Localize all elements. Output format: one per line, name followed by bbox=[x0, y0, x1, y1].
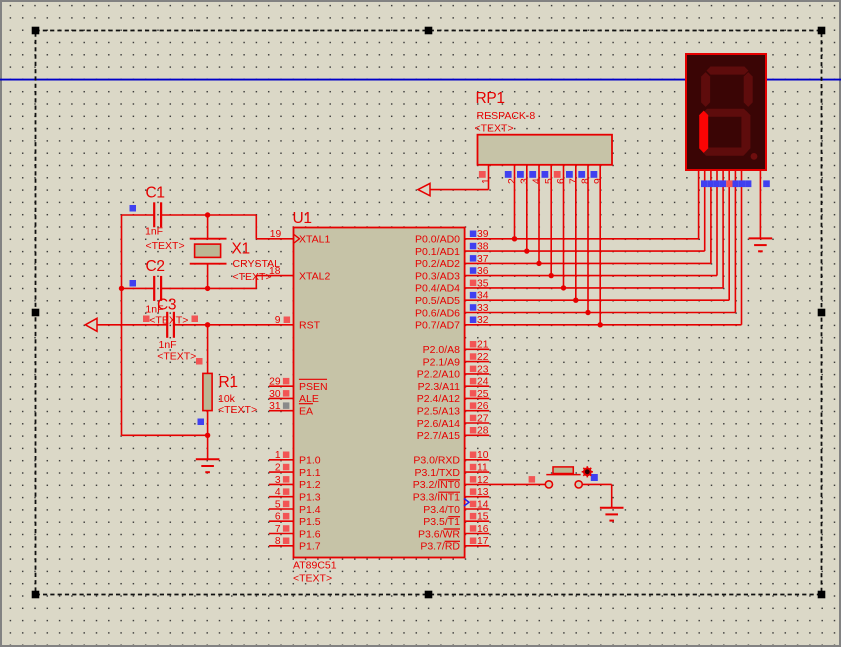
RD overline bbox=[445, 540, 460, 542]
pin 38 square bbox=[470, 243, 477, 250]
svg-text:5: 5 bbox=[275, 499, 281, 510]
pin 2 square bbox=[283, 464, 290, 471]
pin 21 stub (right) bbox=[465, 348, 490, 350]
wire P0.7 net bbox=[465, 165, 742, 325]
pin 15 square bbox=[470, 513, 477, 520]
svg-text:33: 33 bbox=[477, 303, 489, 314]
svg-text:P1.0: P1.0 bbox=[299, 455, 321, 467]
pin 25 stub (right) bbox=[465, 397, 490, 399]
svg-text:24: 24 bbox=[477, 377, 489, 388]
svg-text:1nF: 1nF bbox=[159, 339, 177, 351]
svg-text:<TEXT>: <TEXT> bbox=[157, 351, 196, 363]
pin 5 square bbox=[283, 501, 290, 508]
C1 pin-state square bbox=[130, 205, 137, 212]
RP1 pin 2 square bbox=[505, 171, 512, 178]
pin 3 stub (left) bbox=[269, 483, 294, 485]
svg-text:3: 3 bbox=[275, 475, 281, 486]
svg-text:16: 16 bbox=[477, 524, 489, 535]
svg-text:5: 5 bbox=[544, 178, 555, 184]
junction P0.4 / RP1 bbox=[561, 285, 566, 290]
svg-text:P0.6/AD6: P0.6/AD6 bbox=[415, 307, 460, 319]
pin 13 square bbox=[470, 488, 477, 495]
pin 31 square bbox=[283, 402, 290, 409]
RP1 pin 4 square bbox=[529, 171, 536, 178]
svg-text:P0.5/AD5: P0.5/AD5 bbox=[415, 295, 460, 307]
node C junction (RST/R1) bbox=[205, 322, 210, 327]
selection handle bbox=[818, 591, 826, 599]
svg-text:P1.2: P1.2 bbox=[299, 479, 321, 491]
svg-text:P0.0/AD0: P0.0/AD0 bbox=[415, 234, 460, 246]
pin 12 square bbox=[470, 476, 477, 483]
svg-text:P0.1/AD1: P0.1/AD1 bbox=[415, 246, 460, 258]
svg-text:XTAL1: XTAL1 bbox=[299, 234, 330, 246]
svg-text:9: 9 bbox=[593, 178, 604, 184]
svg-text:<TEXT>: <TEXT> bbox=[475, 123, 514, 135]
svg-text:P2.1/A9: P2.1/A9 bbox=[423, 356, 461, 368]
svg-text:X1: X1 bbox=[232, 241, 250, 258]
wire button to ground bbox=[582, 484, 612, 507]
PSEN overline bbox=[299, 378, 327, 380]
svg-text:P3.6/WR: P3.6/WR bbox=[418, 528, 460, 540]
pin 7 square bbox=[283, 525, 290, 532]
pin 5 stub (left) bbox=[269, 508, 294, 510]
svg-text:6: 6 bbox=[275, 512, 281, 523]
svg-text:23: 23 bbox=[477, 364, 489, 375]
pin 23 stub (right) bbox=[465, 373, 490, 375]
svg-text:25: 25 bbox=[477, 389, 489, 400]
pin 1 stub (left) bbox=[269, 459, 294, 461]
pin 8 stub (left) bbox=[269, 545, 294, 547]
pin 3 square bbox=[283, 476, 290, 483]
svg-text:<TEXT>: <TEXT> bbox=[146, 240, 185, 252]
svg-text:7: 7 bbox=[275, 524, 281, 535]
pin 13 stub (right) bbox=[465, 496, 490, 498]
svg-text:P3.0/RXD: P3.0/RXD bbox=[413, 455, 460, 467]
svg-text:C3: C3 bbox=[157, 297, 176, 314]
svg-text:4: 4 bbox=[532, 178, 543, 184]
pin 30 square bbox=[283, 390, 290, 397]
svg-text:P0.7/AD7: P0.7/AD7 bbox=[415, 320, 460, 332]
EA overline bbox=[299, 403, 313, 405]
pin 31 stub (left) bbox=[269, 410, 294, 412]
node A junction bbox=[205, 212, 210, 217]
wire P0.6 net bbox=[465, 165, 736, 313]
svg-text:8: 8 bbox=[275, 536, 281, 547]
R1 pin-state squares bbox=[196, 358, 203, 365]
pin 30 stub (left) bbox=[269, 397, 294, 399]
pin 8 square bbox=[283, 538, 290, 545]
crystal X1 bbox=[190, 215, 227, 288]
svg-text:P1.5: P1.5 bbox=[299, 516, 321, 528]
C3 pin-state squares bbox=[143, 316, 150, 323]
pin 35 square bbox=[470, 280, 477, 287]
pin 10 stub (right) bbox=[465, 459, 490, 461]
pin 25 square bbox=[470, 390, 477, 397]
pin 22 stub (right) bbox=[465, 361, 490, 363]
RP1 pin 6 square bbox=[554, 171, 561, 178]
P3.4 blue chevron bbox=[464, 499, 469, 507]
svg-text:6: 6 bbox=[556, 178, 567, 184]
capacitor C1 bbox=[122, 202, 208, 227]
svg-text:1: 1 bbox=[481, 178, 492, 184]
junction P0.1 / RP1 bbox=[524, 248, 529, 253]
svg-text:R1: R1 bbox=[219, 374, 238, 391]
wire P0.2 net bbox=[465, 165, 711, 264]
svg-text:P2.0/A8: P2.0/A8 bbox=[423, 344, 461, 356]
svg-text:8: 8 bbox=[581, 178, 592, 184]
svg-text:U1: U1 bbox=[293, 210, 312, 227]
WR overline bbox=[444, 528, 460, 530]
T1 overline bbox=[448, 516, 460, 518]
junction P0.2 / RP1 bbox=[536, 261, 541, 266]
pin 23 square bbox=[470, 366, 477, 373]
wire node A to XTAL1 bbox=[208, 215, 294, 239]
pin 36 square bbox=[470, 267, 477, 274]
svg-text:P2.6/A14: P2.6/A14 bbox=[417, 418, 460, 430]
svg-text:28: 28 bbox=[477, 426, 489, 437]
svg-text:<TEXT>: <TEXT> bbox=[218, 404, 257, 416]
svg-text:30: 30 bbox=[269, 389, 281, 400]
selection handle bbox=[425, 27, 433, 35]
svg-text:XTAL2: XTAL2 bbox=[299, 270, 330, 282]
resistor R1 bbox=[203, 325, 212, 436]
svg-text:7: 7 bbox=[569, 178, 580, 184]
pin 37 square bbox=[470, 255, 477, 262]
INT1 overline bbox=[438, 491, 460, 493]
selection handle bbox=[32, 27, 40, 35]
svg-text:P3.1/TXD: P3.1/TXD bbox=[414, 467, 460, 479]
selection handle bbox=[32, 309, 40, 317]
pin 2 stub (left) bbox=[269, 471, 294, 473]
svg-text:C1: C1 bbox=[146, 185, 165, 202]
XTAL1 clock chevron bbox=[294, 235, 300, 244]
RP1 pin 7 square bbox=[566, 171, 573, 178]
pin 4 square bbox=[283, 488, 290, 495]
wire RP1 pin1 net bbox=[430, 165, 489, 190]
pin 29 stub (left) bbox=[269, 385, 294, 387]
svg-text:11: 11 bbox=[477, 463, 488, 474]
push button contacts bbox=[545, 481, 552, 488]
RP1 pin 9 square bbox=[591, 171, 598, 178]
pin 27 stub (right) bbox=[465, 422, 490, 424]
svg-text:26: 26 bbox=[477, 401, 489, 412]
svg-text:P3.5/T1: P3.5/T1 bbox=[423, 516, 460, 528]
svg-text:<TEXT>: <TEXT> bbox=[233, 271, 272, 283]
svg-text:C2: C2 bbox=[146, 258, 165, 275]
ground (7seg common) bbox=[749, 238, 773, 251]
svg-text:18: 18 bbox=[269, 266, 281, 277]
junction P0.0 / RP1 bbox=[512, 236, 517, 241]
junction P0.6 / RP1 bbox=[585, 310, 590, 315]
pin 28 square bbox=[470, 427, 477, 434]
pin 17 square bbox=[470, 538, 477, 545]
terminal arrow RP1 common bbox=[418, 183, 430, 195]
pin 26 stub (right) bbox=[465, 410, 490, 412]
INT0 overline bbox=[438, 479, 460, 481]
svg-text:19: 19 bbox=[270, 229, 282, 240]
pin 21 square bbox=[470, 341, 477, 348]
selection handle bbox=[425, 591, 433, 599]
svg-text:P1.3: P1.3 bbox=[299, 492, 321, 504]
button operate star bbox=[582, 466, 593, 477]
pin 17 stub (right) bbox=[465, 545, 490, 547]
push button actuator bbox=[546, 467, 580, 475]
pin 16 square bbox=[470, 525, 477, 532]
svg-text:P1.6: P1.6 bbox=[299, 528, 321, 540]
svg-text:36: 36 bbox=[477, 266, 489, 277]
RST pin-state square bbox=[284, 317, 291, 324]
svg-text:<TEXT>: <TEXT> bbox=[293, 573, 332, 585]
wire P0.0 net bbox=[465, 165, 699, 239]
svg-text:EA: EA bbox=[299, 406, 313, 418]
svg-text:P2.4/A12: P2.4/A12 bbox=[417, 393, 460, 405]
junction bottom rail / R1 bbox=[205, 433, 210, 438]
svg-text:13: 13 bbox=[477, 487, 489, 498]
pin 11 stub (right) bbox=[465, 471, 490, 473]
pin 1 square bbox=[283, 452, 290, 459]
svg-text:2: 2 bbox=[507, 178, 518, 184]
wire RST net bbox=[97, 324, 294, 326]
blue horizontal line bbox=[0, 79, 841, 81]
pin 22 square bbox=[470, 353, 477, 360]
svg-text:P3.2/INT0: P3.2/INT0 bbox=[413, 479, 460, 491]
selection handle bbox=[818, 309, 826, 317]
svg-text:9: 9 bbox=[275, 315, 281, 326]
pin 29 square bbox=[283, 378, 290, 385]
svg-text:P1.1: P1.1 bbox=[299, 467, 321, 479]
svg-text:1nF: 1nF bbox=[145, 226, 163, 238]
junction P0.3 / RP1 bbox=[549, 273, 554, 278]
pin 14 stub (right) bbox=[465, 508, 490, 510]
svg-text:P0.4/AD4: P0.4/AD4 bbox=[415, 283, 460, 295]
svg-text:P3.3/INT1: P3.3/INT1 bbox=[413, 492, 460, 504]
pin 15 stub (right) bbox=[465, 520, 490, 522]
pin 24 stub (right) bbox=[465, 385, 490, 387]
svg-text:39: 39 bbox=[477, 229, 489, 240]
capacitor C3 bbox=[167, 312, 174, 338]
pin 6 square bbox=[283, 513, 290, 520]
svg-text:32: 32 bbox=[477, 315, 489, 326]
svg-text:P2.5/A13: P2.5/A13 bbox=[417, 406, 460, 418]
svg-text:P1.4: P1.4 bbox=[299, 504, 321, 516]
terminal arrow RST (left) bbox=[85, 318, 97, 331]
wire P0.4 net bbox=[465, 165, 723, 288]
svg-text:22: 22 bbox=[477, 352, 489, 363]
svg-text:38: 38 bbox=[477, 242, 489, 253]
svg-text:15: 15 bbox=[477, 512, 489, 523]
svg-text:RESPACK-8: RESPACK-8 bbox=[477, 110, 536, 122]
wire 7seg common to ground bbox=[759, 170, 761, 238]
svg-text:P3.7/RD: P3.7/RD bbox=[420, 541, 460, 553]
pin 28 stub (right) bbox=[465, 434, 490, 436]
svg-text:35: 35 bbox=[477, 278, 489, 289]
pin 10 square bbox=[470, 452, 477, 459]
pin 26 square bbox=[470, 402, 477, 409]
ground (button) bbox=[600, 508, 624, 521]
svg-text:P2.3/A11: P2.3/A11 bbox=[418, 381, 461, 393]
wire left rail vertical bbox=[121, 215, 123, 435]
svg-text:31: 31 bbox=[269, 401, 281, 412]
svg-text:P1.7: P1.7 bbox=[299, 541, 321, 553]
RP1 pin 1 square bbox=[479, 171, 486, 178]
wire P3.2 to button bbox=[465, 483, 546, 485]
capacitor C2 bbox=[122, 276, 208, 301]
button pin-state squares bbox=[529, 476, 536, 483]
pin 16 stub (right) bbox=[465, 533, 490, 535]
svg-text:P0.3/AD3: P0.3/AD3 bbox=[415, 270, 460, 282]
7seg digit segments bbox=[699, 67, 753, 156]
svg-text:17: 17 bbox=[477, 536, 489, 547]
svg-text:P2.2/A10: P2.2/A10 bbox=[417, 369, 460, 381]
svg-text:3: 3 bbox=[520, 178, 531, 184]
wire P0.3 net bbox=[465, 165, 717, 276]
selection handle bbox=[818, 27, 826, 35]
svg-text:P0.2/AD2: P0.2/AD2 bbox=[415, 258, 460, 270]
IC U1 AT89C51 body bbox=[294, 228, 465, 558]
7seg common square bbox=[763, 180, 770, 187]
pin 34 square bbox=[470, 292, 477, 299]
junction P0.7 / RP1 bbox=[598, 322, 603, 327]
pin 14 square bbox=[470, 501, 477, 508]
7seg pin state squares bbox=[701, 180, 751, 187]
svg-text:4: 4 bbox=[275, 487, 281, 498]
pin 7 stub (left) bbox=[269, 533, 294, 535]
svg-text:2: 2 bbox=[275, 463, 281, 474]
RP1 pin 5 square bbox=[542, 171, 549, 178]
node B junction bbox=[205, 286, 210, 291]
selection handle bbox=[32, 591, 40, 599]
svg-text:10: 10 bbox=[477, 450, 489, 461]
ground (R1) bbox=[196, 459, 220, 472]
svg-text:14: 14 bbox=[477, 499, 489, 510]
junction P0.5 / RP1 bbox=[573, 298, 578, 303]
svg-text:P3.4/T0: P3.4/T0 bbox=[423, 504, 460, 516]
wire P0.5 net bbox=[465, 165, 730, 300]
svg-text:37: 37 bbox=[477, 254, 489, 265]
svg-text:29: 29 bbox=[269, 377, 281, 388]
pin 27 square bbox=[470, 415, 477, 422]
7seg decimal point bbox=[751, 153, 758, 160]
junction left rail / C2 bbox=[119, 286, 124, 291]
pin 11 square bbox=[470, 464, 477, 471]
wire to ground bbox=[207, 435, 209, 459]
7-segment display body bbox=[686, 54, 766, 170]
pin 32 square bbox=[470, 317, 477, 324]
pin 24 square bbox=[470, 378, 477, 385]
C2 pin-state square bbox=[130, 280, 137, 287]
svg-text:PSEN: PSEN bbox=[299, 381, 328, 393]
svg-text:1: 1 bbox=[275, 450, 281, 461]
svg-text:21: 21 bbox=[477, 340, 489, 351]
RP1 pin 8 square bbox=[578, 171, 585, 178]
pin 4 stub (left) bbox=[269, 496, 294, 498]
svg-text:P2.7/A15: P2.7/A15 bbox=[417, 430, 460, 442]
resistor pack RP1 body bbox=[478, 135, 613, 165]
RP1 pin 3 square bbox=[517, 171, 524, 178]
wire bottom rail horizontal bbox=[122, 434, 208, 436]
pin 33 square bbox=[470, 304, 477, 311]
svg-text:AT89C51: AT89C51 bbox=[293, 560, 337, 572]
wire P0.1 net bbox=[465, 165, 705, 251]
wire node B to XTAL2 bbox=[208, 276, 294, 289]
svg-text:RP1: RP1 bbox=[476, 90, 505, 107]
svg-text:RST: RST bbox=[299, 320, 321, 332]
svg-text:27: 27 bbox=[477, 413, 489, 424]
svg-text:34: 34 bbox=[477, 291, 489, 302]
pin 6 stub (left) bbox=[269, 520, 294, 522]
pin 39 square bbox=[470, 231, 477, 238]
